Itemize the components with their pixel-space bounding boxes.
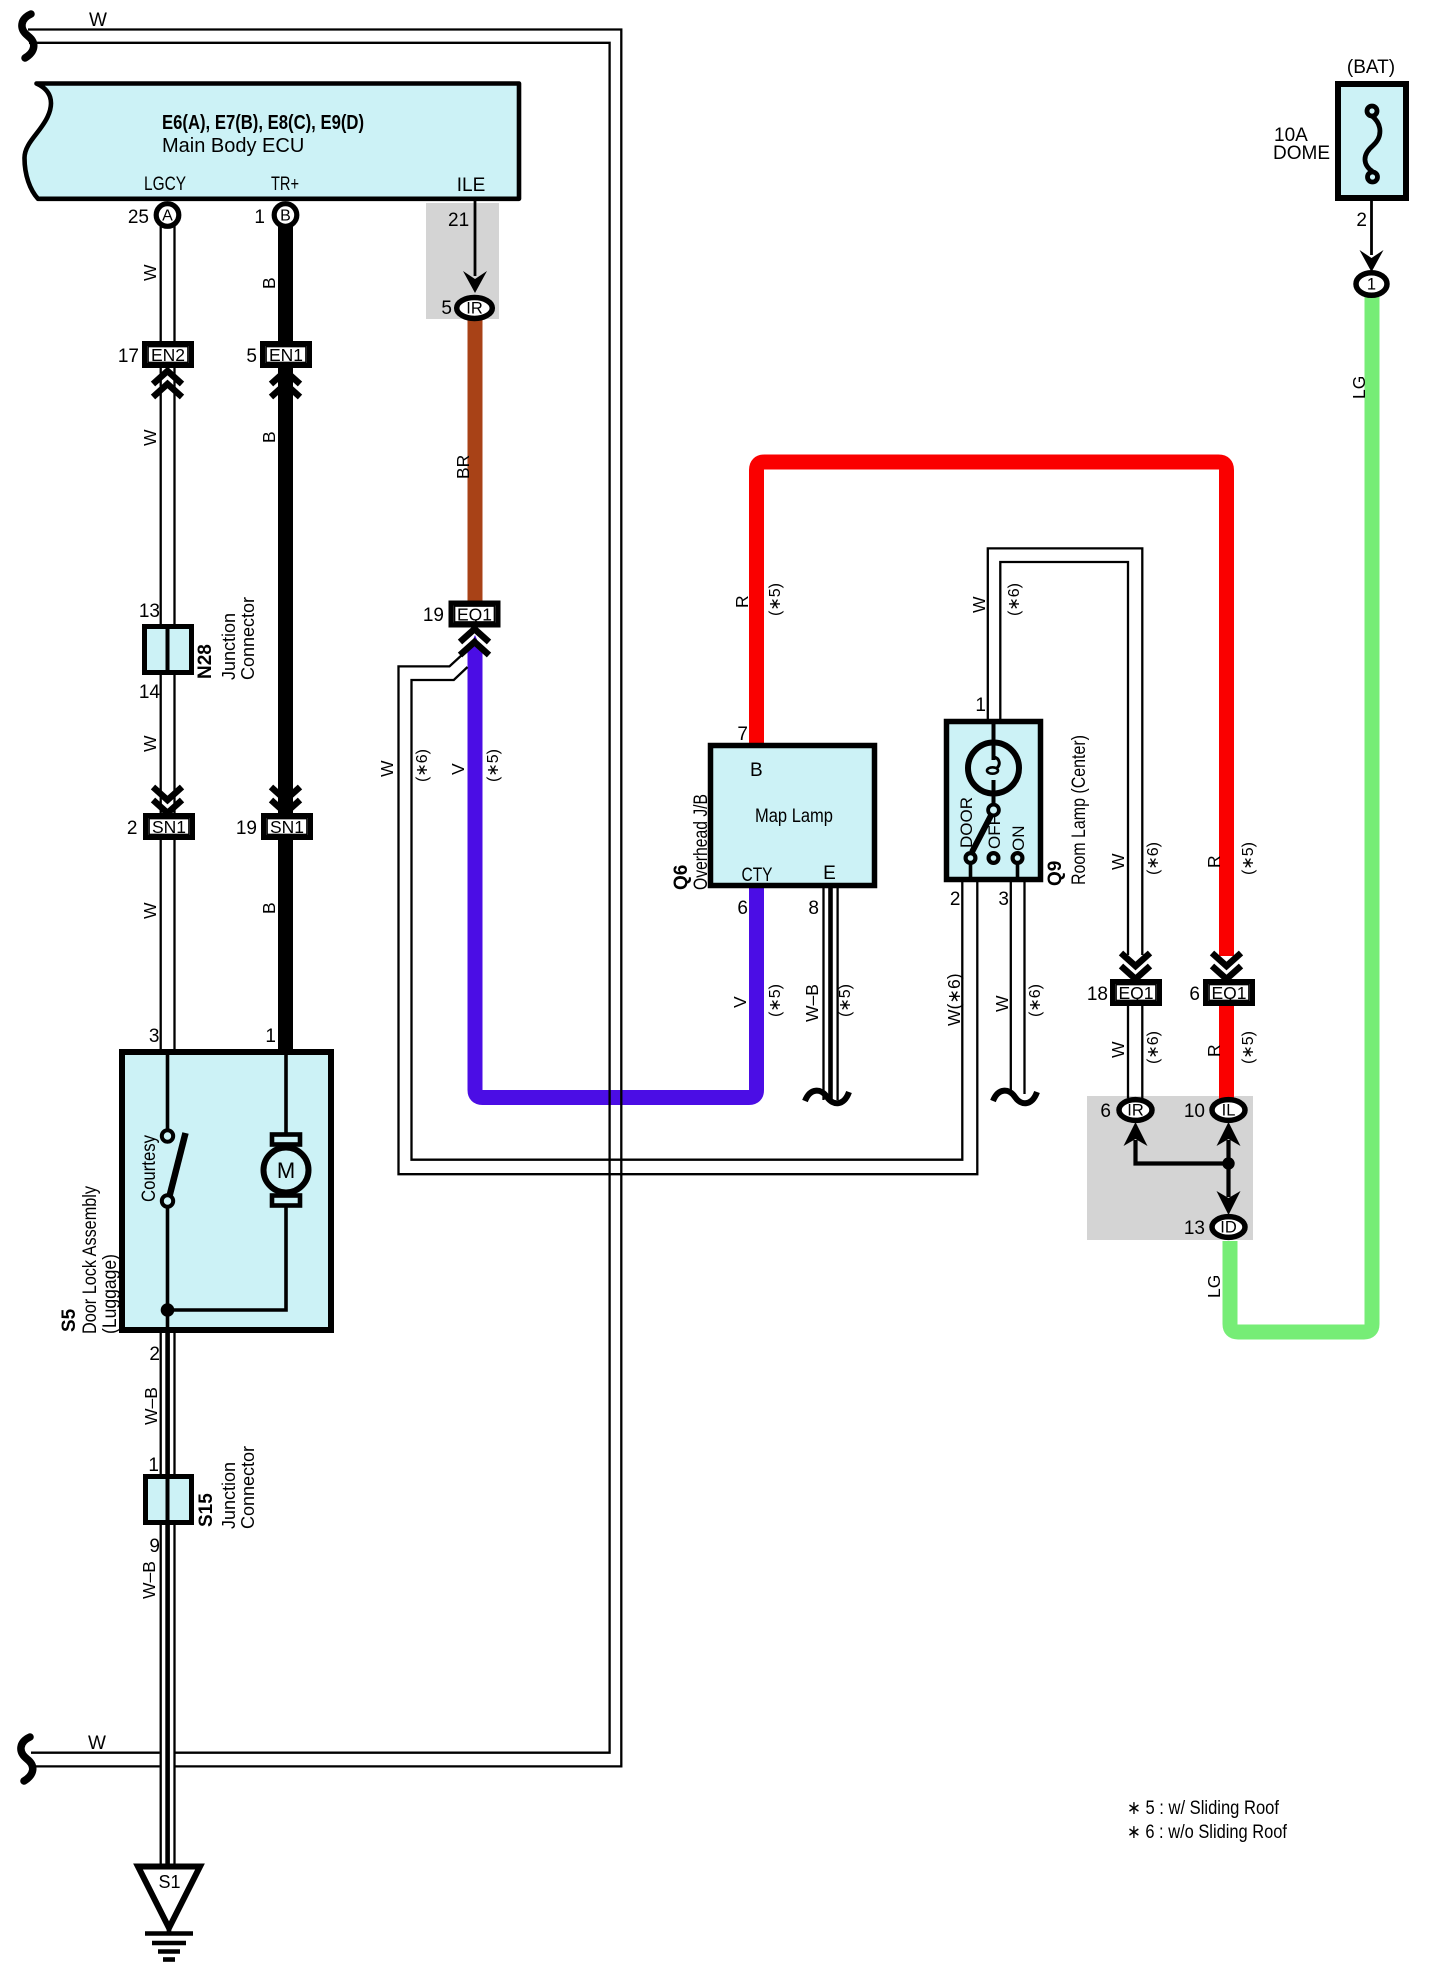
svg-text:EQ1: EQ1 [1118, 983, 1153, 1003]
shield box IR/IL/ID (grey) [1087, 1096, 1253, 1240]
connector EQ1 (18) [1113, 982, 1160, 1004]
ground S1 triangle [138, 1867, 200, 1929]
rotated component names [59, 597, 1090, 1529]
wire W LGCY pair (pin 25 A to door lock pin 3) [161, 222, 175, 1049]
svg-text:B: B [259, 431, 279, 443]
svg-text:EQ1: EQ1 [1211, 983, 1246, 1003]
svg-text:Main Body ECU: Main Body ECU [162, 135, 304, 157]
svg-text:ON: ON [1009, 826, 1028, 852]
junction connector N28 [145, 627, 192, 673]
svg-text:S1: S1 [158, 1872, 180, 1892]
room lamp switch position labels [957, 797, 1028, 851]
svg-text:W–B: W–B [141, 1387, 161, 1425]
svg-text:2: 2 [1356, 210, 1367, 231]
pin oval ID (13) [1212, 1217, 1245, 1238]
svg-text:2: 2 [950, 889, 961, 910]
svg-text:5: 5 [246, 346, 257, 367]
svg-text:6: 6 [1100, 1101, 1111, 1122]
svg-text:OFF: OFF [985, 815, 1004, 849]
svg-text:1: 1 [148, 1455, 159, 1476]
svg-text:W: W [969, 596, 989, 613]
contact OFF [989, 853, 999, 863]
svg-text:E: E [823, 863, 836, 884]
svg-text:W–B: W–B [139, 1561, 159, 1599]
svg-text:Connector: Connector [238, 1446, 258, 1529]
contact ON lead to pin 3 [1016, 863, 1020, 879]
svg-text:IR: IR [1127, 1102, 1144, 1120]
svg-text:Q9: Q9 [1045, 861, 1066, 886]
svg-text:A: A [162, 208, 173, 225]
svg-text:SN1: SN1 [270, 817, 304, 837]
shield junction dot [1222, 1157, 1234, 1169]
wire W page loop inner line [29, 43, 610, 1753]
svg-text:W(∗6): W(∗6) [944, 973, 964, 1026]
svg-text:1: 1 [265, 1026, 276, 1047]
svg-text:Junction: Junction [219, 1462, 239, 1529]
svg-text:(∗6): (∗6) [1145, 1031, 1162, 1064]
wire V pointed tip under chevron [468, 635, 483, 652]
chevron below EQ1-19 [460, 629, 489, 655]
chevron below EN1 [271, 371, 300, 397]
svg-text:(Luggage): (Luggage) [100, 1254, 121, 1334]
svg-text:1: 1 [1367, 276, 1376, 294]
svg-text:V: V [730, 996, 750, 1008]
svg-text:W: W [1108, 1041, 1128, 1058]
ECU E6-E9 Main Body ECU box [25, 84, 520, 199]
svg-text:DOOR: DOOR [957, 797, 976, 848]
wire W(*6) EQ1-19 to Room Lamp pin2, outer line [399, 654, 978, 1175]
svg-text:Courtesy: Courtesy [139, 1135, 160, 1202]
svg-text:25: 25 [128, 207, 149, 228]
junction connector S15 [146, 1477, 192, 1523]
svg-text:Q6: Q6 [671, 865, 692, 890]
svg-text:2: 2 [127, 818, 138, 839]
arrow down at ILE pin 21 [463, 271, 487, 293]
svg-text:(∗5): (∗5) [1240, 842, 1257, 875]
wire W(*6) EQ1-18 to IR pair [1128, 1004, 1142, 1098]
svg-text:9: 9 [149, 1536, 160, 1557]
svg-text:W: W [992, 995, 1012, 1012]
svg-text:LG: LG [1349, 376, 1369, 399]
wire W-B Map Lamp pin 8 (pair + stripe + curl) [805, 886, 849, 1103]
wire fuse pin 2 lead [1370, 198, 1373, 255]
svg-text:E6(A), E7(B), E8(C), E9(D): E6(A), E7(B), E8(C), E9(D) [162, 112, 364, 134]
wire W(*6) EQ1-19 to Room Lamp pin2, inner line [412, 667, 963, 1160]
svg-text:LGCY: LGCY [144, 174, 186, 195]
svg-text:∗ 5 : w/ Sliding Roof: ∗ 5 : w/ Sliding Roof [1127, 1798, 1280, 1819]
junction to motor wire [168, 1204, 287, 1310]
switch to junction wire [166, 1207, 170, 1330]
chevron above SN1-19 [271, 787, 300, 813]
curl end of Room Lamp pin3 W wire [993, 1091, 1037, 1104]
svg-text:19: 19 [236, 818, 257, 839]
svg-text:(∗6): (∗6) [414, 749, 431, 782]
svg-text:W: W [89, 10, 107, 31]
pin oval B (1) [274, 204, 297, 227]
bulb filament [994, 757, 1000, 768]
svg-text:W: W [140, 429, 160, 446]
svg-text:V: V [448, 763, 468, 775]
arrow down into ID [1217, 1191, 1241, 1215]
svg-text:6: 6 [737, 898, 748, 919]
svg-text:S5: S5 [59, 1308, 80, 1332]
room lamp switch common contact [988, 805, 999, 816]
svg-text:EN2: EN2 [151, 345, 185, 365]
continuation squiggle top-left [22, 14, 34, 58]
curl end of W-B wire [805, 1091, 849, 1104]
wire LG green (ID to fuse oval 1) [1230, 297, 1372, 1332]
svg-text:Overhead J/B: Overhead J/B [691, 794, 712, 890]
pin oval IR (6) [1119, 1100, 1152, 1121]
svg-text:5: 5 [441, 298, 452, 319]
svg-text:14: 14 [139, 682, 161, 703]
svg-text:BR: BR [453, 455, 473, 479]
svg-text:(∗5): (∗5) [837, 984, 854, 1017]
pin oval IL (10) [1212, 1100, 1245, 1121]
wire V violet (EQ1-19 to Map Lamp CTY) [475, 646, 757, 1098]
wire pin 21 ILE lead [474, 201, 477, 276]
svg-text:10: 10 [1184, 1101, 1205, 1122]
svg-text:Map Lamp: Map Lamp [755, 806, 833, 827]
connector EN2 (17) [145, 344, 192, 366]
junction dot S5 [161, 1303, 175, 1317]
svg-text:IL: IL [1222, 1102, 1236, 1120]
svg-text:M: M [277, 1158, 295, 1183]
svg-text:(∗5): (∗5) [767, 984, 784, 1017]
connector EQ1 (19) [451, 603, 498, 625]
motor M [264, 1135, 309, 1206]
svg-text:21: 21 [448, 210, 469, 231]
courtesy switch bottom contact [162, 1195, 173, 1206]
room lamp switch blade [972, 815, 992, 853]
svg-text:(∗6): (∗6) [1145, 842, 1162, 875]
svg-text:W: W [140, 902, 160, 919]
wire W page loop outer line (top/right/bottom) [28, 30, 621, 1767]
svg-text:R: R [1204, 1044, 1224, 1057]
svg-text:W: W [377, 760, 397, 777]
svg-text:B: B [259, 902, 279, 914]
door lock assembly S5 box [122, 1052, 331, 1330]
chevron above SN1-2 [153, 787, 182, 813]
svg-text:W–B: W–B [802, 984, 822, 1022]
svg-text:ID: ID [1220, 1219, 1237, 1237]
svg-text:ILE: ILE [457, 175, 486, 196]
motor lead from pin 1 [284, 1055, 288, 1140]
room lamp bulb lead [992, 722, 996, 760]
svg-text:R: R [1204, 855, 1224, 868]
ground symbol bars [145, 1928, 193, 1960]
svg-text:SN1: SN1 [152, 817, 186, 837]
room lamp Q9 box [947, 722, 1041, 880]
svg-text:W: W [140, 735, 160, 752]
connector EN1 (5) [263, 344, 310, 366]
pin oval IR (5) [457, 298, 493, 319]
rotated wire colour labels [139, 264, 1369, 1599]
svg-text:(∗5): (∗5) [767, 583, 784, 616]
svg-text:(BAT): (BAT) [1347, 57, 1395, 78]
svg-text:TR+: TR+ [271, 174, 299, 195]
svg-text:B: B [259, 277, 279, 289]
svg-text:3: 3 [998, 889, 1009, 910]
wire W(*6) Room Lamp pin1 to EQ1-18, outer line [988, 548, 1143, 955]
svg-text:IR: IR [466, 300, 483, 318]
chevron above EQ1-6 [1212, 953, 1241, 979]
svg-text:W: W [140, 264, 160, 281]
svg-text:(∗5): (∗5) [1240, 1031, 1257, 1064]
svg-text:S15: S15 [196, 1493, 217, 1527]
svg-text:Room Lamp (Center): Room Lamp (Center) [1069, 735, 1090, 885]
rotated footnote labels [414, 583, 1257, 1064]
svg-text:13: 13 [139, 601, 160, 622]
arrow up into IL [1217, 1122, 1241, 1146]
svg-text:1: 1 [975, 695, 986, 716]
pin oval A (25) [156, 204, 179, 227]
map lamp Q6 box [711, 746, 875, 886]
shield wiring IR junction [1136, 1140, 1229, 1197]
svg-text:EN1: EN1 [269, 345, 303, 365]
svg-text:Connector: Connector [238, 597, 258, 680]
chevron below EN2 [153, 371, 182, 397]
svg-text:(∗6): (∗6) [1027, 984, 1044, 1017]
connector SN1 (2) [146, 816, 193, 838]
svg-text:(∗6): (∗6) [1006, 583, 1023, 616]
svg-text:W: W [1108, 853, 1128, 870]
wire B thick (TR+ to door lock) [278, 215, 293, 1049]
chevron above EQ1-18 [1121, 953, 1150, 979]
svg-text:8: 8 [808, 898, 819, 919]
courtesy switch blade [169, 1133, 186, 1198]
svg-text:3: 3 [149, 1026, 160, 1047]
svg-text:LG: LG [1204, 1275, 1224, 1298]
connector SN1 (19) [264, 816, 311, 838]
shield box ILE (grey) [426, 203, 499, 319]
svg-text:Door Lock Assembly: Door Lock Assembly [80, 1186, 101, 1334]
svg-text:7: 7 [737, 724, 748, 745]
svg-text:B: B [280, 208, 291, 225]
arrow down at fuse pin 2 [1360, 250, 1384, 272]
svg-text:W: W [88, 1733, 106, 1754]
svg-text:17: 17 [118, 346, 139, 367]
svg-text:18: 18 [1087, 984, 1108, 1005]
svg-text:DOME: DOME [1273, 143, 1330, 164]
svg-text:N28: N28 [195, 644, 216, 679]
svg-text:Junction: Junction [219, 613, 239, 680]
wire W-B S5 pin2 to ground (pair + stripe over W loop) [160, 1333, 176, 1865]
wire R red (Map Lamp B to EQ1-6 to IL) [757, 462, 1227, 956]
fuse box 10A DOME [1338, 84, 1406, 198]
courtesy switch top contact [162, 1130, 173, 1141]
contact ON [1013, 853, 1023, 863]
contact DOOR [966, 853, 976, 863]
svg-text:6: 6 [1189, 984, 1200, 1005]
courtesy switch lead from pin 3 [166, 1055, 170, 1130]
svg-text:B: B [750, 760, 763, 781]
svg-text:R: R [732, 595, 752, 608]
svg-text:(∗5): (∗5) [485, 749, 502, 782]
svg-text:EQ1: EQ1 [457, 605, 492, 625]
svg-text:∗ 6 : w/o Sliding Roof: ∗ 6 : w/o Sliding Roof [1127, 1822, 1288, 1843]
svg-text:19: 19 [423, 605, 444, 626]
arrow up into IR [1124, 1122, 1148, 1146]
bulb to switch lead [992, 780, 996, 805]
svg-text:13: 13 [1184, 1218, 1205, 1239]
svg-text:1: 1 [254, 207, 265, 228]
wire W(*6) Room Lamp pin1 to EQ1-18, inner line [1000, 562, 1128, 955]
svg-text:2: 2 [149, 1344, 160, 1365]
wire W Room Lamp pin3 pair [1011, 882, 1025, 1094]
room lamp bulb [968, 743, 1019, 794]
connector EQ1 (6) [1206, 982, 1253, 1004]
wire BR brown (IR to EQ1-19) [468, 315, 483, 605]
fuse element symbol [1365, 106, 1380, 182]
contact DOOR lead to pin 2 [969, 863, 973, 879]
continuation squiggle bottom-left [21, 1737, 33, 1781]
svg-text:CTY: CTY [742, 865, 773, 886]
pin oval 1 (fuse) [1356, 273, 1387, 296]
wire R red (EQ1-6 to IL) [1219, 1004, 1234, 1099]
